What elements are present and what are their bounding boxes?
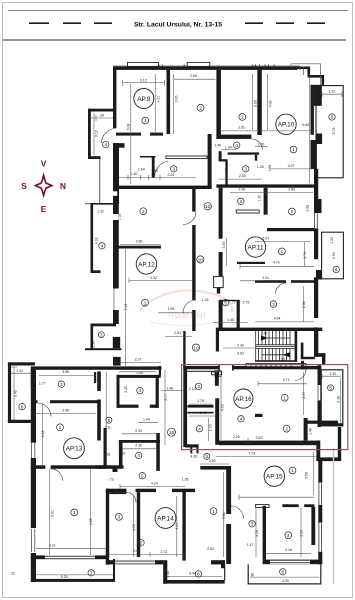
svg-text:2.82: 2.82 <box>207 547 214 551</box>
AP.13 bath4 right wall <box>156 375 159 408</box>
svg-text:AP.14: AP.14 <box>157 515 174 522</box>
window jamb ticks top wall <box>159 65 274 71</box>
dim line 1.64 AP13 <box>138 421 158 423</box>
AP.15 room2 right wall <box>311 507 315 545</box>
svg-text:2.25: 2.25 <box>124 386 128 393</box>
stair side walls thin <box>255 331 257 361</box>
svg-text:5.51: 5.51 <box>222 512 226 519</box>
left exterior wall AP.9 <box>113 67 116 111</box>
svg-text:1: 1 <box>281 249 284 254</box>
AP.16 room2 wall vertical <box>304 418 308 442</box>
svg-text:4.21: 4.21 <box>49 544 56 548</box>
wall AP.9 room1|2 <box>167 70 171 134</box>
svg-text:6.65: 6.65 <box>302 123 309 127</box>
svg-text:1.39: 1.39 <box>220 314 224 321</box>
svg-text:Str. Lacul Ursului, Nr. 13-15: Str. Lacul Ursului, Nr. 13-15 <box>134 22 222 29</box>
svg-text:6: 6 <box>282 570 285 575</box>
svg-text:1.16: 1.16 <box>103 453 110 457</box>
apartment name texts <box>66 96 295 523</box>
AP.13 annex top wall <box>8 362 35 365</box>
dim line 4.53 <box>90 469 92 555</box>
dim line 1.00 AP10 <box>255 146 268 148</box>
svg-text:2.85: 2.85 <box>239 174 246 178</box>
svg-text:8.77: 8.77 <box>164 394 168 401</box>
dim lines 1.76 AP.16 <box>189 404 215 416</box>
AP.11 bath top line <box>223 300 237 301</box>
AP.16 room3 right wall upper <box>215 372 219 386</box>
AP.12 annex top line <box>91 203 116 205</box>
dim line 2.30 <box>122 448 156 450</box>
svg-text:4.18: 4.18 <box>41 431 45 438</box>
svg-text:1.85: 1.85 <box>182 478 189 482</box>
stair bottom line <box>255 360 297 362</box>
AP.11 room2 bottom wall <box>267 228 314 231</box>
right wall step at stair level <box>314 327 318 357</box>
apartment circle AP.14 <box>155 508 176 529</box>
svg-text:1.69: 1.69 <box>118 451 125 455</box>
svg-text:3: 3 <box>272 302 275 307</box>
dim line 3.01 <box>240 280 263 282</box>
apartment circle AP.9 <box>134 89 154 109</box>
svg-text:4.18: 4.18 <box>95 237 99 244</box>
svg-text:2.74: 2.74 <box>303 252 307 259</box>
svg-text:1: 1 <box>73 510 76 515</box>
dim line bath AP.9 <box>119 175 196 180</box>
dim line 3.44 terrace <box>167 576 222 578</box>
svg-text:3.63: 3.63 <box>237 351 244 355</box>
dim line 2.42/3.63 corridor <box>223 347 255 349</box>
AP.12 bath top wall <box>91 324 117 327</box>
watermark arc <box>140 290 232 325</box>
svg-text:2.81: 2.81 <box>238 126 245 130</box>
dim line 4.13 <box>133 496 135 557</box>
svg-text:7.31: 7.31 <box>105 426 111 430</box>
dim line 1.32 AP.13 annex <box>11 372 31 374</box>
AP.11 bath left wall <box>237 300 240 329</box>
svg-text:5: 5 <box>141 473 144 478</box>
svg-text:5.25: 5.25 <box>61 575 68 579</box>
AP.14 bottom wall <box>106 560 164 564</box>
dim line 2.80 AP.12 <box>120 244 161 246</box>
AP.16 room2 wall horizontal <box>305 421 338 424</box>
electrical panel box <box>214 277 224 288</box>
AP.16 door posts <box>255 414 263 417</box>
svg-text:.39: .39 <box>100 323 105 327</box>
AP.11 niche line <box>237 262 265 264</box>
terrace 6 AP.15 outline <box>248 564 321 584</box>
AP.9 bath right wall <box>208 134 212 189</box>
svg-text:2.61: 2.61 <box>174 331 181 335</box>
svg-text:2.53: 2.53 <box>135 429 142 433</box>
dim line 3.38 <box>340 378 342 424</box>
terrace 7 right edge <box>113 559 115 581</box>
AP.16 bottom wall left part <box>185 444 199 447</box>
dimension value texts horizontal <box>10 74 336 583</box>
svg-text:3.01: 3.01 <box>262 276 269 280</box>
stair landing rails <box>256 345 295 349</box>
svg-text:10: 10 <box>205 204 211 209</box>
AP.15 door marks <box>282 504 288 507</box>
dim line 3.28 <box>255 508 257 557</box>
AP.13 | room1 wall <box>31 465 46 469</box>
AP.11 balcony door gap <box>314 259 318 277</box>
svg-text:3: 3 <box>100 332 103 337</box>
AP.9 annex bottom wall <box>88 156 101 159</box>
svg-text:4.79: 4.79 <box>273 261 280 265</box>
svg-text:1: 1 <box>144 118 147 123</box>
svg-text:2.25: 2.25 <box>233 435 240 439</box>
svg-text:1.32: 1.32 <box>166 571 170 578</box>
dim line 4.79 <box>240 264 314 270</box>
stair treads lower flight <box>259 348 291 360</box>
svg-text:5: 5 <box>329 386 332 391</box>
svg-text:2.90: 2.90 <box>136 371 143 375</box>
stair arrow down <box>283 352 290 357</box>
balcony 6 AP.11 outline <box>322 232 344 279</box>
door AP.16 <box>295 369 306 380</box>
svg-text:AP.13: AP.13 <box>66 446 83 453</box>
dim line 3.58 <box>313 452 315 495</box>
AP.11 right exterior wall <box>314 169 318 213</box>
svg-text:4.32: 4.32 <box>150 276 157 280</box>
svg-text:2: 2 <box>142 209 145 214</box>
AP.10 right wall <box>311 85 314 135</box>
dim line 3.22 <box>300 508 302 557</box>
svg-text:E: E <box>41 204 47 214</box>
svg-text:1.48: 1.48 <box>308 428 312 435</box>
AP.16 room3 bottom wall <box>188 405 214 408</box>
svg-text:3.49: 3.49 <box>222 242 226 249</box>
svg-text:16: 16 <box>169 430 175 435</box>
svg-text:1.44: 1.44 <box>202 298 209 302</box>
window white gaps bottom walls <box>45 556 310 565</box>
AP.10 hall walls <box>219 151 222 160</box>
svg-text:1.49: 1.49 <box>151 169 158 173</box>
svg-text:4.39: 4.39 <box>282 579 289 583</box>
dim line 1.39 balc16 <box>322 374 341 380</box>
faint property line right <box>333 448 335 584</box>
AP.16 top-right corner <box>301 361 304 370</box>
apartment circle AP.10 <box>276 114 296 134</box>
apartment circle AP.13 <box>64 438 85 459</box>
dim line 4.64 <box>255 321 314 323</box>
svg-text:4.36: 4.36 <box>190 455 197 459</box>
AP.14/15 middle bottom walls <box>211 560 225 564</box>
dim line 2.66 AP.9 <box>174 78 216 80</box>
left wall mid segment <box>113 143 119 204</box>
door AP.9 bath <box>155 161 169 177</box>
dim line 2.81 AP.10 <box>221 130 314 132</box>
svg-text:3: 3 <box>244 167 247 172</box>
wall AP.10 room2|1 <box>257 70 262 135</box>
balcony 5 AP.10 outline <box>316 86 343 178</box>
dim line 2.47 <box>303 372 305 415</box>
svg-text:1.64: 1.64 <box>143 417 150 421</box>
dim line 5.51 <box>223 472 225 557</box>
AP.9 annex left wall <box>88 109 91 159</box>
svg-text:2.94: 2.94 <box>332 252 336 259</box>
dim line 3.06/4.08 AP.10 <box>253 74 268 130</box>
svg-text:1.02: 1.02 <box>118 213 122 220</box>
window mullions left wall <box>32 443 35 458</box>
svg-text:1.36: 1.36 <box>257 165 264 169</box>
AP.12 room2 bottom shelf wall <box>117 246 161 249</box>
AP.15 right exterior wall <box>318 461 322 483</box>
title dashes left <box>29 22 112 24</box>
dimension value texts vertical <box>14 96 341 578</box>
svg-text:1.02: 1.02 <box>224 168 228 175</box>
svg-text:2: 2 <box>285 426 288 431</box>
AP.13 bath4 top wall <box>117 375 161 378</box>
AP.10/AP.11 boundary wall <box>216 184 314 187</box>
dim line 2.37 <box>113 362 161 364</box>
hall5 bottom wall <box>200 466 229 470</box>
dim line .39 annex <box>91 115 114 121</box>
svg-text:AP.9: AP.9 <box>137 96 150 103</box>
AP.16 inner face lines <box>187 371 215 372</box>
door AP.13 room1 <box>51 469 63 481</box>
svg-text:4.21: 4.21 <box>175 523 179 530</box>
svg-text:3.16: 3.16 <box>285 548 292 552</box>
dim line 2.97 <box>269 168 314 170</box>
dim line 3.71 <box>258 381 307 387</box>
AP.14|15 wall <box>226 466 231 514</box>
svg-text:3: 3 <box>60 382 63 387</box>
svg-text:2: 2 <box>287 533 290 538</box>
AP.16 room3 lower line <box>188 412 214 414</box>
svg-text:1.47: 1.47 <box>246 543 253 547</box>
svg-text:1.39: 1.39 <box>329 372 336 376</box>
AP.16 right window lines <box>317 385 319 400</box>
svg-text:3.28: 3.28 <box>261 331 267 335</box>
room number digits <box>21 106 338 577</box>
stair treads upper flight <box>259 331 291 345</box>
dim line 2.85 <box>219 178 263 180</box>
dim line 1.45 <box>213 322 248 324</box>
dim line 2.61 <box>165 336 192 338</box>
svg-text:1.32: 1.32 <box>258 195 262 202</box>
dim line 4.78 <box>239 495 314 501</box>
dim line 3.12 annex <box>93 113 95 155</box>
header underline <box>3 39 346 41</box>
svg-text:2: 2 <box>59 425 62 430</box>
svg-text:3.44: 3.44 <box>189 572 196 576</box>
svg-text:2.97: 2.97 <box>288 164 295 168</box>
door post AP.9 annex <box>118 143 125 148</box>
svg-text:S: S <box>21 181 27 191</box>
dim line 4.21 bottom <box>36 548 106 550</box>
AP.15 room3 top wall <box>283 504 299 507</box>
AP.14 right wall <box>182 491 185 561</box>
wall AP.9|AP.10 horizontal foot <box>216 135 251 139</box>
AP.14 left wall <box>106 489 109 565</box>
AP.11 room4 right wall <box>264 188 268 215</box>
svg-text:1: 1 <box>292 147 295 152</box>
AP.16 hall wall vertical <box>215 398 219 445</box>
svg-text:4: 4 <box>139 388 142 393</box>
dim line 3.56 upper <box>39 374 96 376</box>
AP.9|AP.12 boundary wall <box>119 186 212 189</box>
svg-text:2.37: 2.37 <box>135 357 142 361</box>
AP.13 room3|2 wall <box>32 400 38 403</box>
AP.10 right pier bottom <box>317 134 323 145</box>
radiator block <box>113 467 118 473</box>
compass rose <box>21 159 66 214</box>
terrace 7 left wall <box>34 559 36 582</box>
door AP.12 entry <box>183 212 196 225</box>
dim line 2.53 <box>122 433 156 435</box>
dim line 5.25 terrace <box>36 574 113 576</box>
svg-text:7.13: 7.13 <box>124 304 128 311</box>
svg-text:3.12: 3.12 <box>140 78 147 82</box>
AP.11 room1|3 wall <box>255 280 286 283</box>
svg-text:1: 1 <box>283 395 286 400</box>
svg-text:1.64: 1.64 <box>268 164 272 171</box>
svg-text:6: 6 <box>21 404 24 409</box>
svg-text:7.73: 7.73 <box>248 452 255 456</box>
svg-text:1.87: 1.87 <box>131 172 138 176</box>
svg-text:AP.12: AP.12 <box>138 261 155 268</box>
svg-text:6: 6 <box>335 267 338 272</box>
svg-text:4: 4 <box>105 142 108 147</box>
top exterior wall <box>113 67 297 70</box>
AP.13 room3 interior wall <box>31 366 34 386</box>
door AP.10 hall <box>251 139 262 150</box>
stair right wall <box>295 331 298 362</box>
left wall below annex <box>113 204 119 214</box>
svg-text:10: 10 <box>198 257 204 262</box>
svg-text:2.16: 2.16 <box>208 424 212 431</box>
svg-text:10: 10 <box>193 346 199 351</box>
svg-text:5.78: 5.78 <box>332 128 336 135</box>
AP.15 right step corner <box>316 441 320 462</box>
svg-text:1.45: 1.45 <box>227 318 234 322</box>
balcony 5 AP.16 outline <box>321 370 343 426</box>
svg-text:1.32: 1.32 <box>16 369 23 373</box>
svg-text:4.24: 4.24 <box>151 482 158 486</box>
svg-text:3: 3 <box>118 515 121 520</box>
svg-text:1.49: 1.49 <box>214 143 221 147</box>
svg-text:4.53: 4.53 <box>89 518 93 525</box>
corridor right wall lower <box>219 300 223 331</box>
dim lines AP.11 top <box>230 190 313 195</box>
dim line 4.24 <box>120 484 185 489</box>
svg-text:-.73: -.73 <box>108 478 114 482</box>
svg-text:2.96: 2.96 <box>238 187 245 191</box>
dim line 2.82 <box>200 463 229 465</box>
svg-text:2.26: 2.26 <box>167 173 174 177</box>
svg-text:3.12: 3.12 <box>95 130 99 137</box>
AP.14 room3|AP.14 wall <box>137 492 140 557</box>
dim line 4.18 <box>42 404 44 466</box>
AP.14 top wall <box>106 489 127 492</box>
svg-text:2.30: 2.30 <box>135 444 142 448</box>
svg-text:2.67: 2.67 <box>133 549 140 553</box>
svg-text:3.28: 3.28 <box>255 530 259 537</box>
windows thin lines <box>32 443 311 563</box>
dim line 7.13 <box>125 249 127 366</box>
title dashes right <box>245 22 325 24</box>
AP.16 top wall <box>183 366 307 369</box>
svg-text:3.56: 3.56 <box>62 370 69 374</box>
svg-text:4.21: 4.21 <box>157 96 161 103</box>
svg-text:3.06: 3.06 <box>254 100 258 107</box>
svg-text:AP.15: AP.15 <box>266 474 283 481</box>
svg-text:2.66: 2.66 <box>190 74 197 78</box>
dim line 2.74 <box>304 242 306 266</box>
AP.16 room3 shelf <box>212 372 222 375</box>
svg-text:3.38: 3.38 <box>336 396 340 403</box>
AP.11 balcony door pier <box>316 199 322 213</box>
dim line 1.32 balcony5 <box>322 92 342 98</box>
elevator room <box>301 343 315 360</box>
svg-text:4: 4 <box>235 143 238 148</box>
svg-text:2.75: 2.75 <box>242 300 249 304</box>
svg-text:1.94: 1.94 <box>225 146 232 150</box>
svg-text:4: 4 <box>240 417 243 422</box>
svg-text:1.32: 1.32 <box>97 209 104 213</box>
svg-text:3: 3 <box>172 167 175 172</box>
dim line 2.90 <box>119 371 156 373</box>
svg-text:2: 2 <box>199 106 202 111</box>
svg-text:2.80: 2.80 <box>136 239 143 243</box>
door AP.11 room3 <box>276 283 287 294</box>
svg-text:3.56: 3.56 <box>62 409 69 413</box>
AP.15 room3|2 wall <box>263 506 266 560</box>
AP.15 right windows thin lines <box>318 483 320 506</box>
left exterior wall AP.13 lower <box>31 370 36 443</box>
svg-text:.77: .77 <box>231 301 236 305</box>
svg-text:6.97: 6.97 <box>262 237 269 241</box>
svg-text:3: 3 <box>251 522 254 527</box>
AP.16 right wall <box>318 365 321 385</box>
dim line 7.73 <box>216 456 316 458</box>
svg-text:5.17: 5.17 <box>281 357 287 361</box>
dim line 6.08 <box>130 84 132 184</box>
AP.16 bottom wall main <box>219 441 320 445</box>
AP.9 room1 bottom wall <box>116 133 141 136</box>
terrace 7 bottom wall <box>34 579 116 582</box>
svg-text:2: 2 <box>241 115 244 120</box>
svg-text:V: V <box>41 159 47 169</box>
svg-text:3.22: 3.22 <box>300 530 304 537</box>
svg-text:2.63: 2.63 <box>256 436 263 440</box>
svg-text:1.77: 1.77 <box>39 382 46 386</box>
dim line AP.14 bottom <box>109 552 185 557</box>
terrace 6 AP.14 outline <box>163 560 225 584</box>
apartment circle AP.11 <box>245 237 265 257</box>
svg-text:AP.11: AP.11 <box>247 244 264 251</box>
AP.15 bottom wall <box>263 560 321 565</box>
svg-text:2.72: 2.72 <box>160 550 167 554</box>
apartment circle AP.16 <box>234 389 253 408</box>
AP.13 annex bottom wall <box>8 420 32 423</box>
svg-text:2.47: 2.47 <box>302 392 306 399</box>
svg-text:3.43: 3.43 <box>14 390 18 397</box>
AP.13/14 wall at hall <box>95 465 124 469</box>
svg-text:4: 4 <box>240 199 243 204</box>
svg-text:4: 4 <box>198 426 201 431</box>
AP.11 window thin lines <box>314 213 316 229</box>
svg-text:3.58: 3.58 <box>305 472 309 479</box>
svg-text:1.48: 1.48 <box>166 387 173 391</box>
svg-text:ROMANI: ROMANI <box>168 311 206 320</box>
corridor right wall <box>219 188 223 239</box>
dim line 2.25/2.63 <box>219 438 320 444</box>
svg-text:3.71: 3.71 <box>283 378 290 382</box>
wall below balcony5 right <box>338 427 341 458</box>
AP.13 bath4 left wall <box>117 375 120 408</box>
